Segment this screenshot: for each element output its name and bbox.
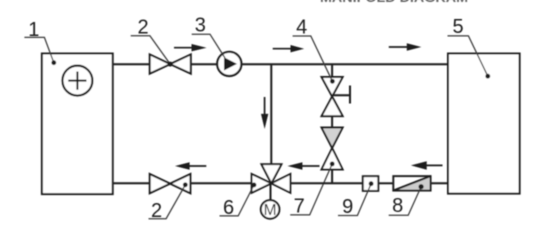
- wire: top pipe pump to tank 5: [241, 63, 448, 65]
- svg-text:8: 8: [392, 195, 403, 217]
- wire: top pipe boiler to valve 2: [113, 63, 150, 65]
- svg-text:7: 7: [294, 195, 305, 217]
- flow arrow right (after pump): [273, 45, 304, 52]
- label 2 (bottom): [149, 182, 188, 221]
- svg-text:M: M: [264, 202, 277, 219]
- wire: stub check valve 7 to bottom pipe: [331, 170, 333, 184]
- wire: bottom pipe sensor 9 to filter 8: [378, 182, 393, 184]
- valve 4 handle: [333, 86, 350, 104]
- motor M of valve 6: [261, 183, 280, 219]
- gate valve 2 (top): [150, 54, 191, 73]
- svg-text:2: 2: [137, 16, 148, 38]
- wire: stub valve 4 to check valve 7: [331, 116, 333, 127]
- flow arrow left (above filter 8): [411, 161, 443, 169]
- flow arrow down (branch): [261, 97, 268, 129]
- label 9: [338, 181, 374, 218]
- flow arrow right (before tank 5): [389, 43, 422, 51]
- label 4: [293, 16, 335, 83]
- label 1: [24, 19, 56, 65]
- pump 3: [217, 52, 241, 76]
- svg-text:5: 5: [452, 16, 463, 38]
- sensor 9 (small square): [363, 176, 379, 191]
- svg-text:MANIFOLD DIAGRAM: MANIFOLD DIAGRAM: [320, 0, 468, 5]
- flow arrow left (above valve 2b): [175, 162, 206, 170]
- label 5: [448, 16, 491, 79]
- svg-text:4: 4: [296, 16, 307, 38]
- wire: bottom pipe boiler to valve 2b: [113, 182, 150, 184]
- filter 8: [393, 176, 430, 191]
- wire: bottom pipe valve 6 to sensor 9: [290, 182, 362, 184]
- check valve 7 (gray/white vertical): [322, 128, 343, 170]
- wire: stub top pipe to valve 4: [331, 64, 333, 77]
- label 6: [220, 183, 257, 219]
- label 8: [389, 184, 424, 217]
- svg-text:9: 9: [342, 196, 353, 218]
- wire: bottom pipe filter 8 to tank 5: [431, 182, 448, 184]
- svg-text:3: 3: [195, 15, 206, 37]
- label 7: [290, 162, 334, 218]
- three-way valve 6: [252, 164, 291, 193]
- globe valve 4 (vertical): [322, 77, 343, 116]
- boiler 1 (left box): [42, 54, 113, 195]
- gate valve 2 (bottom): [150, 174, 191, 193]
- flow arrow left (right of three-way valve): [288, 162, 320, 170]
- heat source circle-plus inside boiler 1: [62, 66, 92, 96]
- flow arrow right (above valve 2): [174, 44, 207, 51]
- label 2 (top): [131, 16, 173, 66]
- wire: branch down to three-way valve: [270, 64, 272, 164]
- wire: pipe valve 2 to pump 3: [191, 63, 217, 65]
- label 3: [192, 15, 225, 59]
- tank 5 (right box): [448, 54, 520, 194]
- wire: bottom pipe valve 2b to three-way valve 6: [190, 182, 251, 184]
